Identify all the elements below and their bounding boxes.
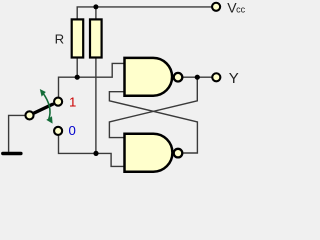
NAND gate U1 top <box>125 58 173 96</box>
junction dot node R1 <box>75 75 80 80</box>
wire top gate output to Y terminal <box>183 76 212 78</box>
resistor R left <box>72 19 84 57</box>
wire node R1: switch contact 1 up to rail and to top gate upper input <box>59 63 126 97</box>
wire right resistor down to node S <box>95 58 97 154</box>
output terminal Y <box>212 73 220 81</box>
wire pole to ground <box>9 115 25 151</box>
junction dot Y node <box>195 75 200 80</box>
switch pole contact <box>25 111 33 119</box>
svg-text:R: R <box>55 31 65 46</box>
power terminal Vcc <box>212 3 220 11</box>
toggle arrow head down <box>46 116 52 123</box>
junction dot node S <box>93 151 98 156</box>
wire right resistor top stub <box>95 7 97 20</box>
switch contact 1 <box>54 98 62 106</box>
toggle arrow head up <box>40 89 46 97</box>
switch contact 0 <box>54 127 62 135</box>
output bubble U2 <box>174 149 183 158</box>
wire cross-coupling: bottom gate upper input from Y node <box>109 77 197 137</box>
wire left resistor bottom <box>76 58 78 78</box>
output bubble U1 <box>174 73 183 82</box>
wire top rail to Vcc <box>77 7 211 20</box>
NAND gate U2 bottom <box>125 134 173 172</box>
resistor R right <box>90 19 102 57</box>
svg-text:1: 1 <box>69 95 76 110</box>
svg-text:0: 0 <box>69 123 76 138</box>
junction dot top rail <box>93 4 98 9</box>
wire switch contact 0 to bottom gate lower input <box>59 136 126 167</box>
switch lever <box>32 104 53 114</box>
svg-text:Y: Y <box>229 70 239 87</box>
wire cross-coupling: top gate lower input from bottom gate output <box>109 92 197 153</box>
toggle arrow arc <box>43 93 50 119</box>
ground <box>3 152 21 155</box>
